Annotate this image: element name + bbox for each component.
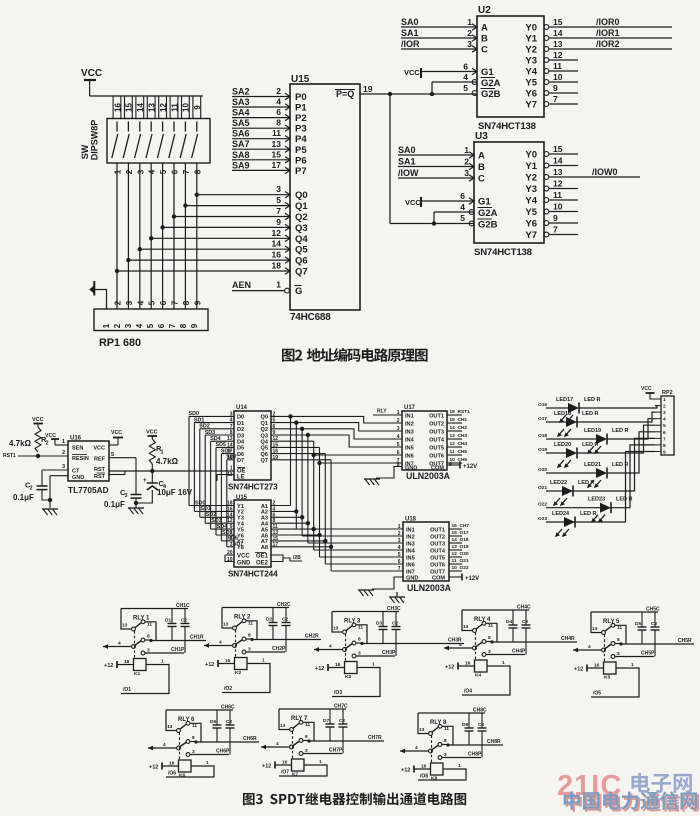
wire LED17 to RP2 pin 2 xyxy=(579,406,657,408)
svg-text:13: 13 xyxy=(553,167,563,177)
relay RLY3 snubber capacitor D xyxy=(382,612,384,627)
wire SA5 to U15 P3 pin 8 xyxy=(232,127,290,129)
svg-text:17: 17 xyxy=(273,542,279,548)
svg-text:1: 1 xyxy=(114,169,123,174)
wire LED19 to RP2 pin 4 xyxy=(607,419,655,439)
svg-text:9: 9 xyxy=(553,83,558,93)
svg-text:CH6: CH6 xyxy=(458,457,468,463)
svg-text:O20: O20 xyxy=(460,551,469,557)
wire DIP bus to U15 Q7 pin 18 xyxy=(117,270,290,272)
relay RLY4 coil xyxy=(475,660,488,672)
svg-text:Q1: Q1 xyxy=(261,421,268,427)
svg-text:13: 13 xyxy=(148,103,157,112)
wire data bus SD5 xyxy=(216,446,234,448)
ground (ULN1) xyxy=(364,478,380,480)
svg-text:GND: GND xyxy=(72,475,84,481)
svg-text:1: 1 xyxy=(464,145,469,155)
relay RLY7 coil +12 supply xyxy=(275,764,292,766)
svg-text:16: 16 xyxy=(124,659,130,665)
svg-text:U2: U2 xyxy=(478,5,491,16)
svg-text:Y8: Y8 xyxy=(237,545,244,551)
svg-text:P2: P2 xyxy=(295,113,307,124)
svg-text:VCC: VCC xyxy=(405,198,421,207)
svg-text:15: 15 xyxy=(450,417,456,423)
ground (U16) xyxy=(42,508,58,510)
svg-text:LED22: LED22 xyxy=(550,480,567,486)
svg-text:CH1: CH1 xyxy=(458,417,468,423)
svg-text:SD2: SD2 xyxy=(199,424,210,430)
svg-text:Y4: Y4 xyxy=(525,67,537,78)
svg-text:+12V: +12V xyxy=(463,464,477,470)
svg-text:RST: RST xyxy=(94,467,106,473)
svg-text:LED21: LED21 xyxy=(584,462,601,468)
relay RLY1 coil +12 supply xyxy=(117,664,134,666)
svg-text:LED19: LED19 xyxy=(584,428,601,434)
svg-text:11: 11 xyxy=(272,128,281,138)
wire data bus SD0 xyxy=(189,415,234,417)
svg-text:D7: D7 xyxy=(323,718,329,724)
relay RLY1 coil xyxy=(134,659,147,671)
relay RLY3 pole1 contact xyxy=(346,626,353,631)
relay RLY4 snubber capacitor C xyxy=(525,610,527,625)
svg-text:CH1P: CH1P xyxy=(171,647,185,653)
svg-text:D7: D7 xyxy=(237,458,244,464)
svg-text:VCC: VCC xyxy=(146,430,158,436)
relay RLY4 coil +12 supply xyxy=(458,665,475,667)
svg-text:Y2: Y2 xyxy=(525,45,537,56)
relay RLY4 pole1 contact xyxy=(476,624,483,629)
svg-text:2: 2 xyxy=(276,86,281,96)
svg-text:ULN2003A: ULN2003A xyxy=(407,583,452,593)
svg-text:3: 3 xyxy=(276,184,281,194)
wire ULN2 OUT7 xyxy=(449,570,462,572)
caption figure 3 xyxy=(243,792,466,805)
svg-text:IN6: IN6 xyxy=(405,453,414,459)
relay RLY8 coil +12 supply xyxy=(414,768,431,770)
svg-text:/IOR: /IOR xyxy=(401,39,420,49)
svg-text:/O5: /O5 xyxy=(593,691,601,697)
wire U3 G2B pin 5 xyxy=(433,212,435,224)
relay RLY6 SPDT cell xyxy=(166,709,233,711)
svg-text:Y6: Y6 xyxy=(525,219,537,230)
svg-text:2: 2 xyxy=(125,169,134,174)
relay RLY6 pole2 contacts xyxy=(180,742,187,747)
svg-text:SN74HCT244: SN74HCT244 xyxy=(228,570,278,579)
svg-text:SA1: SA1 xyxy=(398,157,416,167)
wire /IOR to U2 C pin 3 xyxy=(401,48,477,50)
svg-text:Q0: Q0 xyxy=(261,415,268,421)
capacitor C3 0.1uF xyxy=(131,494,142,496)
relay RLY6 pole2 common xyxy=(148,747,177,749)
svg-text:12: 12 xyxy=(553,179,563,189)
relay RLY5 snubber capacitor C xyxy=(654,612,656,627)
relay RLY4 SPDT cell xyxy=(462,609,529,611)
wire ULN2 OUT6 xyxy=(449,563,462,565)
svg-text:B: B xyxy=(481,34,488,45)
svg-text:4: 4 xyxy=(397,434,400,440)
svg-text:CH3P: CH3P xyxy=(382,650,396,656)
svg-text:0.1μF: 0.1μF xyxy=(13,493,34,502)
svg-text:3: 3 xyxy=(663,410,666,416)
svg-text:7: 7 xyxy=(276,206,281,216)
svg-text:REF: REF xyxy=(94,457,106,463)
svg-text:RLY: RLY xyxy=(474,617,485,623)
svg-text:SA4: SA4 xyxy=(232,108,250,118)
relay RLY3 snubber capacitor C xyxy=(395,612,397,627)
relay RLY6 coil xyxy=(179,760,192,772)
svg-text:C2: C2 xyxy=(282,617,288,623)
wire bus to U15b A4 xyxy=(271,522,308,524)
relay RLY3 mechanical link xyxy=(345,634,347,662)
svg-text:D6: D6 xyxy=(210,719,216,725)
svg-text:16: 16 xyxy=(335,662,341,668)
svg-text:CH6R: CH6R xyxy=(243,736,257,742)
wire U14 Q1 to ULN1 IN3 xyxy=(296,423,402,431)
svg-text:CH5P: CH5P xyxy=(641,651,655,657)
svg-text:6: 6 xyxy=(460,191,465,201)
wire data bus SD7 xyxy=(227,459,234,461)
svg-text:OUT6: OUT6 xyxy=(429,453,444,459)
svg-text:3: 3 xyxy=(124,323,133,328)
relay RLY4 mid rail CH4R xyxy=(492,641,577,643)
svg-text:4: 4 xyxy=(398,545,401,551)
svg-text:3: 3 xyxy=(617,651,620,657)
svg-text:OUT3: OUT3 xyxy=(430,541,445,547)
svg-text:P4: P4 xyxy=(295,134,307,145)
svg-text:/O7: /O7 xyxy=(281,770,289,776)
svg-text:14: 14 xyxy=(136,103,145,112)
svg-text:Q3: Q3 xyxy=(295,223,308,234)
svg-text:16: 16 xyxy=(594,663,600,669)
wire SA4 to U15 P2 pin 6 xyxy=(232,117,290,119)
relay RLY4 coil drive loop xyxy=(462,666,510,695)
svg-text:G1: G1 xyxy=(478,197,491,208)
svg-text:17: 17 xyxy=(272,160,282,170)
svg-text:1: 1 xyxy=(398,524,401,530)
svg-text:3: 3 xyxy=(192,749,195,755)
svg-text:Y6: Y6 xyxy=(525,89,537,100)
svg-text:CH3C: CH3C xyxy=(387,606,401,612)
svg-text:11: 11 xyxy=(444,726,449,732)
wire bus to ULN2 IN3 xyxy=(307,523,309,543)
svg-text:1: 1 xyxy=(262,658,265,664)
svg-text:OUT6: OUT6 xyxy=(430,562,445,568)
svg-text:8: 8 xyxy=(192,735,195,741)
svg-text:OE2: OE2 xyxy=(256,561,269,567)
wires DIP switch pins 1-8 to RP1 xyxy=(116,163,118,309)
wire ULN2 COM to +12V xyxy=(449,576,462,578)
wire ULN1 OUT2 xyxy=(447,422,462,424)
svg-text:C2: C2 xyxy=(226,719,232,725)
svg-text:4: 4 xyxy=(219,640,222,646)
svg-text:4: 4 xyxy=(276,741,279,747)
svg-text:1: 1 xyxy=(161,659,164,665)
svg-text:OUT7: OUT7 xyxy=(430,569,445,575)
svg-text:SD1: SD1 xyxy=(194,417,205,423)
svg-text:7: 7 xyxy=(553,94,558,104)
wire R2 to U16 RESIN xyxy=(18,455,68,457)
svg-text:14: 14 xyxy=(227,442,233,448)
ground (C3) xyxy=(128,507,144,509)
svg-text:8: 8 xyxy=(230,430,233,436)
svg-text:Q0: Q0 xyxy=(295,190,308,201)
svg-text:4: 4 xyxy=(459,642,462,648)
svg-text:Q6: Q6 xyxy=(261,452,268,458)
wire bus to ULN2 IN5 xyxy=(319,535,321,557)
svg-text:IN3: IN3 xyxy=(405,429,414,435)
svg-text:D6: D6 xyxy=(237,452,244,458)
svg-text:1: 1 xyxy=(631,662,634,668)
svg-text:8: 8 xyxy=(444,738,447,744)
svg-text:3: 3 xyxy=(467,39,472,49)
svg-text:Y1: Y1 xyxy=(525,161,537,172)
svg-text:OUT3: OUT3 xyxy=(429,429,444,435)
svg-text:O19: O19 xyxy=(538,447,547,453)
svg-text:Y7: Y7 xyxy=(525,230,537,241)
svg-text:CH7P: CH7P xyxy=(329,748,343,754)
svg-text:OUT4: OUT4 xyxy=(430,548,446,554)
wire DIP bus to U15 Q1 pin 5 xyxy=(185,205,290,207)
svg-text:74HC688: 74HC688 xyxy=(290,312,331,323)
svg-text:O22: O22 xyxy=(538,502,547,508)
svg-text:2: 2 xyxy=(46,441,49,447)
svg-text:8: 8 xyxy=(397,462,400,468)
wire data bus SD3 xyxy=(205,434,234,436)
wire LED21 to RP2 pin 6 xyxy=(607,432,655,473)
svg-text:4: 4 xyxy=(463,72,468,82)
svg-text:G2B: G2B xyxy=(478,220,498,231)
wire bus to ULN2 IN4 xyxy=(313,529,315,550)
wire RP1 pin1 to ground arrow xyxy=(94,290,106,310)
svg-text:IN4: IN4 xyxy=(405,437,415,443)
svg-text:C2: C2 xyxy=(339,718,345,724)
wire U14 Q1 bus xyxy=(271,422,296,424)
svg-text:C2: C2 xyxy=(478,722,484,728)
svg-text:2: 2 xyxy=(30,486,33,492)
relay RLY5 coil +12 supply xyxy=(587,667,604,669)
svg-text:17: 17 xyxy=(227,449,233,455)
svg-text:+12: +12 xyxy=(401,768,410,774)
svg-text:RLY: RLY xyxy=(133,616,144,622)
svg-text:+12: +12 xyxy=(262,764,271,770)
svg-text:11: 11 xyxy=(553,61,562,71)
svg-text:C2: C2 xyxy=(651,621,657,627)
svg-text:13: 13 xyxy=(419,727,425,733)
wire U14 Q5 bus xyxy=(271,446,320,448)
svg-text:5: 5 xyxy=(397,442,400,448)
wire U16 RST to SN74HCT273 CLR xyxy=(109,470,234,472)
relay RLY2 pole2 contacts xyxy=(236,640,243,645)
wire bus to U15b A2 xyxy=(271,510,296,512)
svg-text:RLY: RLY xyxy=(234,615,245,621)
svg-text:3: 3 xyxy=(248,647,251,653)
svg-text:2: 2 xyxy=(62,450,65,456)
svg-text:11: 11 xyxy=(358,625,363,631)
wire SA9 to U15 P7 pin 17 xyxy=(232,169,290,171)
svg-text:+: + xyxy=(143,478,147,484)
svg-text:CH2: CH2 xyxy=(458,425,468,431)
watermark dianziwang xyxy=(631,773,692,793)
wire DIP bus to U15 Q6 pin 16 xyxy=(128,259,290,261)
wire ULN2 OUT2 xyxy=(449,535,462,537)
svg-text:3: 3 xyxy=(358,651,361,657)
svg-text:Q7: Q7 xyxy=(261,458,268,464)
svg-text:10: 10 xyxy=(182,103,191,112)
svg-text:U3: U3 xyxy=(475,131,488,142)
svg-text:7: 7 xyxy=(230,424,233,430)
svg-text:7: 7 xyxy=(553,225,558,235)
wire DIP bus to U15 Q2 pin 7 xyxy=(174,216,290,218)
svg-text:GND: GND xyxy=(406,576,418,582)
wire SA1 to U2 B pin 2 xyxy=(401,37,477,39)
svg-text:1: 1 xyxy=(102,323,111,328)
svg-text:OUT4: OUT4 xyxy=(429,437,445,443)
wire LED18 to RP2 pin 3 xyxy=(577,412,655,422)
svg-text:P6: P6 xyxy=(295,155,307,166)
svg-text:13: 13 xyxy=(227,436,233,442)
svg-text:LED R: LED R xyxy=(584,397,601,403)
svg-text:0.1μF: 0.1μF xyxy=(104,500,125,509)
relay RLY1 pole2 NC wire CH1P xyxy=(145,652,184,654)
relay RLY6 snubber capacitor C xyxy=(229,710,231,725)
relay RLY1 mechanical link xyxy=(134,631,136,659)
svg-text:VCC: VCC xyxy=(45,433,56,439)
svg-text:K3: K3 xyxy=(345,674,351,680)
svg-text:5: 5 xyxy=(148,300,157,305)
svg-text:1: 1 xyxy=(206,760,209,766)
svg-text:OUT2: OUT2 xyxy=(430,534,445,540)
svg-text:K2: K2 xyxy=(235,670,241,676)
wire data bus SD2 xyxy=(200,428,234,430)
svg-text:Y5: Y5 xyxy=(525,78,537,89)
relay RLY6 snubber capacitor D xyxy=(216,710,218,725)
relay RLY1 pole2 common xyxy=(103,646,132,648)
relay RLY2 coil drive loop xyxy=(222,664,270,693)
svg-text:/IOR2: /IOR2 xyxy=(596,39,620,49)
svg-text:TL7705AD: TL7705AD xyxy=(68,485,109,495)
svg-text:14: 14 xyxy=(272,239,282,249)
svg-text:RLY: RLY xyxy=(291,716,302,722)
svg-text:LED R: LED R xyxy=(578,480,595,486)
svg-text:B: B xyxy=(478,162,485,173)
svg-text:6: 6 xyxy=(463,62,468,72)
svg-text:P5: P5 xyxy=(295,145,307,156)
svg-text:/IOW0: /IOW0 xyxy=(592,167,618,177)
svg-text:12: 12 xyxy=(450,441,456,447)
svg-text:16: 16 xyxy=(272,250,282,260)
svg-text:OE1: OE1 xyxy=(256,554,269,560)
svg-text:7: 7 xyxy=(663,436,666,442)
svg-text:LED R: LED R xyxy=(580,511,597,517)
svg-text:16: 16 xyxy=(113,103,122,112)
svg-text:13: 13 xyxy=(272,139,282,149)
relay RLY8 snubber capacitor D xyxy=(468,713,470,728)
resistor R1 4.7k xyxy=(149,439,155,464)
relay RLY4 pole2 common xyxy=(444,647,473,649)
relay RLY3 pole2 common xyxy=(314,649,343,651)
svg-text:Q3: Q3 xyxy=(261,433,268,439)
svg-text:6: 6 xyxy=(157,323,166,328)
svg-text:IN6: IN6 xyxy=(406,562,415,568)
relay RLY6 coil +12 supply xyxy=(162,765,179,767)
relay RLY6 pole2 NC wire CH6P xyxy=(190,754,229,756)
relay RLY6 mechanical link xyxy=(179,733,181,761)
watermark zhongguo dianli tongxinwang shadow xyxy=(566,793,699,811)
svg-text:3: 3 xyxy=(136,169,145,174)
wire ULN1 GND to ground xyxy=(376,467,402,479)
svg-text:AEN: AEN xyxy=(232,280,251,290)
relay RLY7 snubber capacitor C xyxy=(342,709,344,724)
svg-text:15: 15 xyxy=(452,530,458,536)
relay RLY6 mid rail CH6R xyxy=(196,741,259,743)
svg-text:6: 6 xyxy=(663,430,666,436)
svg-text:Y7: Y7 xyxy=(525,100,537,111)
svg-text:/O2: /O2 xyxy=(224,686,232,692)
wire U15 pin19 to U2 G2B and U3 G2B xyxy=(360,93,476,95)
svg-text:16: 16 xyxy=(225,658,231,664)
svg-text:GND: GND xyxy=(237,561,251,567)
svg-text:O20: O20 xyxy=(538,467,547,473)
svg-text:RP2: RP2 xyxy=(662,390,673,396)
svg-text:C2: C2 xyxy=(522,619,528,625)
svg-text:13: 13 xyxy=(223,622,229,628)
wire ULN1 OUT7 xyxy=(447,462,462,464)
relay RLY5 coil drive loop xyxy=(591,668,639,697)
svg-text:5: 5 xyxy=(276,195,281,205)
wire U14 Q3 bus xyxy=(271,434,308,436)
svg-text:/IOR0: /IOR0 xyxy=(596,17,620,27)
svg-text:8: 8 xyxy=(663,443,666,449)
wire LED20 to RP2 pin 5 xyxy=(577,425,655,453)
wire U16 GND to ground xyxy=(50,475,68,477)
svg-text:8: 8 xyxy=(193,169,202,174)
svg-text:O16: O16 xyxy=(538,402,547,408)
svg-text:D1: D1 xyxy=(165,618,171,624)
svg-text:8: 8 xyxy=(147,634,150,640)
svg-text:O23: O23 xyxy=(538,516,547,522)
svg-text:CH7R: CH7R xyxy=(368,735,382,741)
svg-text:1: 1 xyxy=(62,439,65,445)
wire ULN2 OUT4 xyxy=(449,549,462,551)
watermark zhongguo dianli tongxinwang xyxy=(564,791,697,809)
svg-text:CH1R: CH1R xyxy=(190,635,204,641)
svg-text:D4: D4 xyxy=(237,440,245,446)
svg-text:15: 15 xyxy=(125,103,134,112)
svg-text:9: 9 xyxy=(190,323,199,328)
svg-text:4: 4 xyxy=(415,745,418,751)
svg-text:O17: O17 xyxy=(538,416,547,422)
relay RLY5 pole1 contact xyxy=(605,626,612,631)
svg-text:Q4: Q4 xyxy=(261,440,269,446)
svg-text:4: 4 xyxy=(136,300,145,305)
relay RLY7 pole2 common xyxy=(261,746,290,748)
svg-text:5: 5 xyxy=(663,423,666,429)
wire bus to U15b A6 xyxy=(271,534,320,536)
wire data bus SD1 xyxy=(194,422,234,424)
svg-text:LED20: LED20 xyxy=(554,442,571,448)
wire SA0 to U3 A pin 1 xyxy=(398,154,474,156)
svg-text:11: 11 xyxy=(450,449,455,455)
svg-text:10: 10 xyxy=(553,72,563,82)
relay RLY4 snubber capacitor D xyxy=(512,610,514,625)
svg-text:OUT5: OUT5 xyxy=(430,555,445,561)
relay RLY3 pole2 contacts xyxy=(346,644,353,649)
svg-text:OUT1: OUT1 xyxy=(429,413,444,419)
svg-text:11: 11 xyxy=(553,190,562,200)
svg-text:9: 9 xyxy=(193,105,202,110)
relay RLY6 coil drive loop xyxy=(166,766,214,777)
svg-text:SEN: SEN xyxy=(72,446,83,452)
